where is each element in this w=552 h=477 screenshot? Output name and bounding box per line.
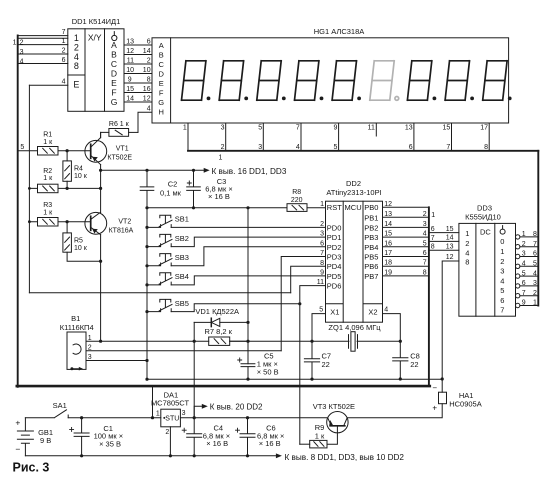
- svg-text:9: 9: [128, 76, 132, 83]
- svg-text:X/Y: X/Y: [88, 33, 102, 43]
- svg-text:13: 13: [126, 38, 134, 45]
- svg-text:9: 9: [522, 300, 526, 307]
- svg-text:13: 13: [405, 125, 413, 132]
- digit 8: [445, 61, 474, 101]
- resistor R1 1k: [18, 147, 91, 156]
- wires DD1 outputs A-G to display: [124, 45, 152, 102]
- svg-text:3: 3: [522, 251, 526, 258]
- wire harness frame: bottom bus: [17, 385, 430, 388]
- svg-text:7: 7: [431, 235, 435, 242]
- wire harness frame: left vertical bus: [17, 36, 19, 387]
- svg-text:12: 12: [126, 48, 134, 55]
- svg-text:1: 1: [465, 229, 469, 238]
- svg-text:SB1: SB1: [175, 215, 189, 224]
- buzzer HA1 НС0905А: [439, 379, 447, 404]
- svg-text:12: 12: [143, 95, 151, 102]
- resistor R6 1k: [101, 129, 138, 138]
- decoder DD3 К555ИД10 body: [459, 223, 516, 316]
- svg-text:1 к: 1 к: [315, 432, 325, 441]
- DD1 output letters A-G: [111, 40, 118, 107]
- svg-text:5: 5: [20, 144, 24, 151]
- svg-text:7: 7: [522, 290, 526, 297]
- HG1 digit glyphs (digit 6 greyed): [182, 61, 512, 101]
- DD1 left pin numbers: [62, 29, 66, 86]
- branch К выв. 20 DD2: [194, 406, 202, 417]
- wire harness: display digit bundle horizontal: [188, 150, 538, 152]
- svg-text:10 к: 10 к: [74, 173, 88, 180]
- wire DD1 input pin 1: [18, 44, 68, 46]
- svg-text:6: 6: [147, 38, 151, 45]
- resistor R9 1к: [300, 440, 327, 448]
- svg-text:14: 14: [126, 95, 134, 102]
- svg-text:DC: DC: [480, 227, 491, 236]
- svg-text:7: 7: [423, 260, 427, 267]
- svg-text:+: +: [432, 403, 437, 412]
- svg-text:0: 0: [500, 237, 504, 246]
- DD3 input wires from bundle: [429, 233, 459, 251]
- svg-text:1: 1: [156, 411, 160, 418]
- DD2 right pin names PB0-PB7: [364, 203, 378, 281]
- svg-text:R3: R3: [43, 202, 52, 209]
- svg-text:X2: X2: [368, 307, 377, 316]
- wire DD1 input pin 2: [18, 53, 68, 55]
- hall sensor B1 К1116КП4: [67, 332, 86, 370]
- resistor R3 1k: [29, 218, 90, 227]
- svg-text:КТ502Е: КТ502Е: [107, 154, 132, 161]
- svg-text:H: H: [158, 108, 163, 117]
- HG1 segment input letters A-H: [158, 41, 164, 117]
- svg-text:PD6: PD6: [327, 282, 342, 291]
- svg-text:4: 4: [533, 270, 537, 277]
- svg-text:8: 8: [423, 269, 427, 276]
- transistor VT2 КТ816А: [85, 212, 107, 235]
- svg-text:4: 4: [522, 261, 526, 268]
- capacitor C1 100мк 35В: [70, 418, 90, 456]
- svg-text:2: 2: [62, 47, 66, 54]
- svg-text:2: 2: [147, 57, 151, 64]
- wire harness: right vertical bundle to DD3 outputs: [537, 151, 539, 306]
- wire E/R2/R3 net to DD2 PD4: [29, 292, 290, 294]
- svg-text:1: 1: [522, 231, 526, 238]
- ground bus of buttons: [146, 208, 148, 379]
- wire +9V up through frame bottom: [152, 386, 154, 418]
- svg-text:DD2: DD2: [346, 179, 361, 188]
- capacitor C8 22: [393, 341, 408, 379]
- svg-text:2: 2: [522, 241, 526, 248]
- digit 3: [257, 61, 286, 101]
- svg-text:3: 3: [20, 49, 24, 56]
- DD1 pin labels left column 1 2 4 8 E: [73, 33, 79, 89]
- svg-text:R2: R2: [43, 168, 52, 175]
- button SB1: [147, 215, 326, 227]
- svg-text:1: 1: [533, 300, 537, 307]
- svg-text:3: 3: [221, 125, 225, 132]
- resistor R5 10k: [63, 222, 101, 262]
- svg-text:4: 4: [384, 307, 388, 314]
- svg-text:18: 18: [384, 260, 392, 267]
- wire B1 pin2 to PD3: [86, 350, 281, 352]
- svg-text:B: B: [159, 50, 164, 59]
- svg-text:3: 3: [533, 280, 537, 287]
- svg-text:VD1 КД522А: VD1 КД522А: [195, 307, 239, 316]
- svg-text:× 16 В: × 16 В: [259, 439, 281, 448]
- svg-text:5: 5: [522, 270, 526, 277]
- svg-text:R6 1 к: R6 1 к: [109, 121, 130, 128]
- svg-text:E: E: [111, 78, 117, 88]
- harness wire numbers of digit lines: [221, 144, 489, 151]
- svg-text:0,1 мк: 0,1 мк: [160, 188, 182, 197]
- svg-text:6: 6: [522, 280, 526, 287]
- svg-text:8: 8: [147, 76, 151, 83]
- svg-text:4: 4: [62, 79, 66, 86]
- diode VD1 КД522А: [194, 318, 248, 326]
- svg-text:13: 13: [446, 243, 454, 250]
- wire harness: DD2 PB bundle vertical: [428, 207, 430, 386]
- svg-text:Рис. 3: Рис. 3: [13, 461, 50, 475]
- capacitor C3 6,8мк (polarized): [187, 170, 201, 208]
- svg-text:1 к: 1 к: [43, 209, 53, 216]
- svg-text:D: D: [158, 69, 164, 78]
- svg-text:C8: C8: [410, 351, 420, 360]
- svg-text:8: 8: [431, 244, 435, 251]
- DD3 output pin numbers: [522, 231, 526, 307]
- svg-text:PB3: PB3: [364, 233, 378, 242]
- digit 1: [182, 61, 211, 101]
- DD3 output digit labels 0-7: [500, 237, 504, 315]
- svg-text:5: 5: [500, 286, 504, 295]
- svg-text:2: 2: [165, 429, 169, 436]
- svg-text:10: 10: [126, 67, 134, 74]
- svg-text:12: 12: [384, 201, 392, 208]
- svg-text:13: 13: [384, 211, 392, 218]
- DD2 left pin numbers: [317, 201, 324, 286]
- wire DD1 input pin 6: [18, 63, 68, 65]
- svg-text:6: 6: [320, 240, 324, 247]
- svg-text:12: 12: [446, 254, 454, 261]
- svg-text:SB3: SB3: [175, 253, 189, 262]
- node R1/R4/VT1 base: [66, 149, 69, 152]
- DD3 output indicator symbol: [500, 226, 505, 235]
- svg-text:PB2: PB2: [364, 223, 378, 232]
- svg-text:КТ816А: КТ816А: [109, 228, 134, 235]
- svg-text:1: 1: [219, 154, 223, 161]
- display input pin numbers: [143, 38, 151, 112]
- harness numbers of PB wires: [423, 211, 427, 277]
- svg-text:15: 15: [384, 231, 392, 238]
- digit 9: [483, 61, 512, 101]
- svg-text:10 к: 10 к: [74, 245, 88, 252]
- wire B1 pin1 row to R7/crystal: [86, 340, 209, 342]
- svg-text:16: 16: [143, 86, 151, 93]
- svg-text:E: E: [159, 79, 164, 88]
- svg-text:5: 5: [258, 125, 262, 132]
- svg-text:4: 4: [500, 277, 504, 286]
- svg-text:1: 1: [74, 33, 79, 43]
- wire E-line vertical from DD1 E down: [28, 85, 30, 292]
- svg-text:PB5: PB5: [364, 253, 378, 262]
- svg-text:9 В: 9 В: [40, 436, 51, 445]
- unconnected stub of greyed digit pin 11: [375, 123, 377, 136]
- svg-text:НС0905А: НС0905А: [449, 399, 482, 408]
- display pin numbers row: [183, 125, 488, 132]
- svg-text:F: F: [111, 88, 116, 98]
- svg-text:−: −: [15, 444, 20, 454]
- wire VT1 collector to VT2 emitter: [100, 165, 102, 213]
- svg-text:1: 1: [320, 201, 324, 208]
- svg-text:2: 2: [423, 211, 427, 218]
- regulator DA1 МС7805СТ: [161, 409, 327, 456]
- transistor VT3 КТ502Е: [327, 412, 348, 445]
- svg-text:4: 4: [465, 248, 469, 257]
- display cathode pin stubs to bundle: [188, 123, 489, 151]
- svg-text:2: 2: [320, 221, 324, 228]
- svg-text:PB0: PB0: [364, 203, 378, 212]
- svg-text:9: 9: [333, 125, 337, 132]
- svg-text:MCU: MCU: [345, 203, 362, 212]
- svg-text:8: 8: [74, 61, 79, 71]
- svg-text:3: 3: [320, 231, 324, 238]
- svg-text:ZQ1 4,096 МГц: ZQ1 4,096 МГц: [328, 323, 381, 332]
- svg-text:DD1 К514ИД1: DD1 К514ИД1: [72, 17, 121, 26]
- svg-text:К выв. 20 DD2: К выв. 20 DD2: [210, 403, 263, 412]
- ground return rail with arrow label: [25, 455, 276, 457]
- svg-text:1: 1: [13, 39, 17, 46]
- svg-text:8: 8: [465, 258, 469, 267]
- resistor R4 10k: [63, 151, 72, 189]
- svg-text:220: 220: [291, 197, 303, 204]
- svg-text:−: −: [432, 384, 437, 393]
- decoder DD1 К514ИД1 body: [68, 29, 124, 112]
- svg-text:4: 4: [20, 58, 24, 65]
- svg-text:HG1 АЛС318А: HG1 АЛС318А: [314, 27, 365, 36]
- DD2 left pin names: [327, 203, 342, 290]
- svg-text:PB1: PB1: [364, 213, 378, 222]
- digit 7: [407, 61, 436, 101]
- digit 4: [295, 61, 324, 101]
- button SB5: [147, 299, 300, 311]
- digit 5: [332, 61, 361, 101]
- svg-text:× 16 В: × 16 В: [208, 192, 230, 201]
- svg-text:R1: R1: [43, 132, 52, 139]
- display HG1 АЛС318А body: [152, 38, 509, 123]
- B1 pin numbers: [88, 335, 92, 361]
- svg-text:SB4: SB4: [175, 272, 189, 281]
- svg-text:4: 4: [296, 144, 300, 151]
- svg-text:6: 6: [431, 226, 435, 233]
- svg-text:17: 17: [480, 125, 488, 132]
- svg-text:4: 4: [423, 231, 427, 238]
- svg-text:5: 5: [333, 144, 337, 151]
- digit 2: [219, 61, 248, 101]
- svg-text:22: 22: [410, 360, 418, 369]
- svg-text:11: 11: [368, 125, 375, 132]
- svg-text:7: 7: [446, 144, 450, 151]
- button SB3: [147, 247, 326, 266]
- svg-text:8: 8: [484, 144, 488, 151]
- svg-text:RST: RST: [327, 203, 342, 212]
- wire PD6 to R9: [300, 286, 326, 445]
- svg-text:11: 11: [127, 57, 134, 64]
- svg-text:15: 15: [443, 125, 451, 132]
- resistor R7 8,2к: [209, 337, 248, 345]
- svg-text:3: 3: [258, 144, 262, 151]
- svg-text:C: C: [111, 59, 117, 69]
- svg-text:6: 6: [62, 57, 66, 64]
- svg-text:R4: R4: [74, 165, 83, 172]
- svg-text:2: 2: [533, 290, 537, 297]
- +5V rail to К выв. 16 DD1, DD3: [101, 169, 204, 171]
- capacitor C6 6,8мк 16В: [236, 418, 256, 456]
- resistor R2 1k: [29, 184, 100, 193]
- svg-text:15: 15: [446, 226, 454, 233]
- svg-text:VT1: VT1: [116, 146, 129, 153]
- svg-text:A: A: [111, 40, 117, 50]
- wire VT2 collector down to B1 pin1 row: [100, 235, 102, 342]
- svg-text:В1: В1: [71, 314, 80, 323]
- wire B1 pin3 to ground bus: [86, 360, 147, 362]
- capacitor C4 6,8мк 16В: [182, 418, 202, 456]
- DD3 open collector outputs to bundle: [516, 235, 539, 308]
- wire X1 to crystal: [312, 314, 326, 342]
- svg-text:14: 14: [384, 221, 392, 228]
- svg-text:× 50 В: × 50 В: [257, 367, 279, 376]
- wire PD4 to E net: [291, 266, 326, 293]
- svg-text:3: 3: [423, 221, 427, 228]
- svg-text:X1: X1: [330, 307, 339, 316]
- DD2 PB output wires to bundle: [383, 207, 429, 276]
- svg-text:1: 1: [183, 125, 187, 132]
- svg-text:7: 7: [62, 29, 66, 36]
- svg-text:SB5: SB5: [175, 299, 189, 308]
- svg-text:16: 16: [384, 240, 392, 247]
- svg-text:× 35 В: × 35 В: [99, 439, 121, 448]
- svg-text:PB4: PB4: [364, 243, 378, 252]
- wire: frame top segment to DD1: [18, 37, 68, 39]
- wire DD1 E input pin 4: [29, 84, 67, 86]
- svg-text:+: +: [15, 417, 20, 427]
- svg-text:1 к: 1 к: [43, 175, 53, 182]
- svg-text:МС7805СТ: МС7805СТ: [151, 398, 190, 407]
- wire +5V rail through VT3 to HA1: [348, 404, 442, 418]
- DD3 input weight labels: [465, 229, 469, 266]
- svg-text:2: 2: [500, 257, 504, 266]
- svg-text:3: 3: [500, 267, 504, 276]
- svg-text:PD1: PD1: [327, 233, 342, 242]
- svg-text:C7: C7: [322, 351, 332, 360]
- crystal ZQ1 4,096 МГц: [230, 332, 401, 352]
- svg-text:1: 1: [431, 212, 435, 219]
- battery GB1 9В: [17, 418, 33, 456]
- svg-text:VT3 КТ502Е: VT3 КТ502Е: [313, 402, 355, 411]
- svg-text:B: B: [111, 50, 117, 60]
- svg-text:ATtiny2313-10PI: ATtiny2313-10PI: [326, 188, 381, 197]
- svg-text:F: F: [159, 88, 164, 97]
- capacitor C7 22: [304, 341, 319, 379]
- wire PD3 to B1 pin2: [281, 257, 325, 351]
- svg-text:PB6: PB6: [364, 262, 378, 271]
- svg-text:К выв. 8 DD1, DD3, выв 10 DD2: К выв. 8 DD1, DD3, выв 10 DD2: [285, 453, 405, 462]
- svg-text:6: 6: [500, 296, 504, 305]
- svg-text:6: 6: [409, 144, 413, 151]
- svg-text:VT2: VT2: [118, 218, 131, 225]
- wire X2 to crystal: [383, 314, 401, 342]
- svg-text:C: C: [158, 60, 164, 69]
- wire DD1 input pin 7: [18, 35, 68, 37]
- svg-text:SB2: SB2: [175, 234, 189, 243]
- wire display input H from R6: [138, 112, 152, 132]
- svg-text:STU: STU: [165, 416, 179, 423]
- svg-text:G: G: [111, 97, 118, 107]
- svg-text:К555ИД10: К555ИД10: [465, 213, 501, 222]
- transistor VT1 КТ502Е: [85, 132, 107, 164]
- svg-text:× 16 В: × 16 В: [206, 439, 228, 448]
- svg-text:6: 6: [533, 251, 537, 258]
- DD2 right pin numbers: [384, 201, 392, 277]
- svg-text:7: 7: [500, 306, 504, 315]
- svg-text:5: 5: [533, 261, 537, 268]
- svg-text:10: 10: [143, 67, 151, 74]
- node SB5 branch on PD6 line: [298, 302, 301, 305]
- switch SA1: [25, 410, 160, 418]
- svg-text:5: 5: [319, 307, 323, 314]
- svg-text:PD3: PD3: [327, 253, 342, 262]
- svg-text:PD4: PD4: [327, 262, 342, 271]
- svg-text:К1116КП4: К1116КП4: [60, 323, 94, 332]
- svg-text:C2: C2: [168, 180, 178, 189]
- svg-text:R5: R5: [74, 238, 83, 245]
- button SB2: [147, 234, 326, 246]
- svg-text:К выв. 16 DD1, DD3: К выв. 16 DD1, DD3: [212, 167, 287, 176]
- svg-text:E: E: [73, 80, 79, 90]
- capacitor C2 0,1 мк: [140, 170, 154, 208]
- vertical GND branch with C5: [247, 208, 249, 379]
- svg-text:SA1: SA1: [53, 401, 67, 410]
- capacitor C5 1мк 50В: [238, 358, 255, 367]
- wire VD1 cathode down to +5V vertical: [193, 322, 195, 417]
- harness wire numbers at left frame: [13, 39, 24, 65]
- svg-text:DD3: DD3: [477, 204, 492, 213]
- resistor R8 220 on RST line: [147, 204, 326, 212]
- svg-text:PB7: PB7: [364, 272, 378, 281]
- svg-text:PD0: PD0: [327, 223, 342, 232]
- svg-text:D: D: [111, 69, 117, 79]
- svg-text:PD2: PD2: [327, 243, 342, 252]
- svg-text:1: 1: [500, 247, 504, 256]
- svg-text:14: 14: [143, 48, 151, 55]
- ground rail under crystal: [147, 378, 442, 380]
- svg-text:3: 3: [182, 410, 186, 417]
- svg-text:1: 1: [62, 38, 66, 45]
- svg-text:7: 7: [296, 125, 300, 132]
- svg-text:PD5: PD5: [327, 272, 342, 281]
- harness numbers of DD3 outputs: [533, 231, 537, 307]
- svg-text:8: 8: [533, 231, 537, 238]
- button SB4: [147, 273, 326, 285]
- MCU DD2 ATtiny2313 body: [326, 201, 383, 322]
- svg-text:R8: R8: [292, 189, 301, 196]
- svg-text:R7 8,2 к: R7 8,2 к: [205, 327, 233, 336]
- DD3 input 8 pin12 wire to ground rail: [442, 261, 459, 379]
- DD1 output indicator symbol: [112, 32, 117, 41]
- svg-text:G: G: [158, 98, 164, 107]
- svg-text:19: 19: [384, 269, 392, 276]
- svg-text:1 к: 1 к: [43, 139, 53, 146]
- svg-text:2: 2: [221, 144, 225, 151]
- svg-text:17: 17: [384, 250, 392, 257]
- svg-text:7: 7: [533, 241, 537, 248]
- svg-text:6: 6: [423, 250, 427, 257]
- svg-text:2: 2: [465, 239, 469, 248]
